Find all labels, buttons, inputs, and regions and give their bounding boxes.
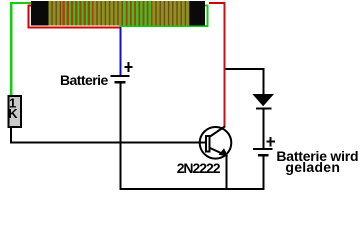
battery B1 short plate (-) (115, 81, 126, 83)
svg-text:K: K (8, 106, 18, 121)
resistor R1 value label K (8, 106, 18, 121)
wire: vertical into diode D1 (262, 68, 264, 94)
inductor L1 winding band olive 2 (94, 1, 124, 25)
inductor L1 right black end cap (189, 1, 205, 25)
battery B2 long plate (+) (253, 148, 273, 150)
label 2N2222 (177, 160, 221, 176)
wire: battery B2 minus to bottom rail (262, 157, 264, 190)
battery B2 short plate (-) (258, 154, 269, 157)
diode D1 triangle (252, 94, 274, 106)
resistor R1 value label 1 (9, 96, 16, 111)
diode D1 cathode bar (256, 107, 271, 109)
resistor R1 body 1K (9, 96, 22, 127)
transistor Q1 collector diagonal (210, 126, 225, 136)
wire: collector node horizontal branch to diode D1 (226, 68, 264, 70)
wire: base wire horizontal to transistor Q1 (10, 142, 205, 144)
inductor L1 left black end cap (31, 1, 49, 25)
wire: battery B1 minus down to bottom rail (120, 83, 122, 190)
svg-text:2N2222: 2N2222 (177, 160, 221, 176)
battery B1 plus sign (124, 62, 132, 72)
wire: resistor R1 to base wire (10, 128, 12, 143)
wire: red winding stub top-left (28, 5, 32, 7)
wire: blue center tap to battery plus (120, 27, 122, 76)
battery B1 long plate (+) (111, 75, 130, 77)
label geladen (285, 159, 340, 175)
label Batterie wird (276, 148, 358, 164)
inductor L1 winding band olive 1 (49, 1, 63, 25)
wire: green winding lead top-left horizontal (10, 2, 31, 4)
wire: red winding left vertical (28, 5, 30, 29)
wire: green vertical from coil to resistor R1 (10, 2, 13, 96)
wire: bottom rail (120, 188, 265, 190)
transistor Q1 circle (200, 127, 232, 159)
transistor Q1 base bar (206, 136, 209, 152)
inductor L1 winding band bright 2 (124, 1, 153, 25)
battery B2 plus sign (267, 137, 275, 146)
svg-text:geladen: geladen (285, 159, 340, 175)
wire: green winding top stub right (205, 5, 209, 7)
wire: red vertical to transistor collector (224, 2, 226, 128)
wire: red winding bottom horizontal to center tap (28, 27, 120, 29)
wire: green winding bottom horizontal to center tap (120, 25, 209, 27)
wire: emitter to bottom rail (225, 154, 227, 189)
transistor Q1 emitter diagonal with arrow (210, 148, 228, 156)
wire: diode D1 to battery B2 (262, 110, 264, 149)
label Batterie (60, 72, 108, 88)
inductor L1 winding band olive 3 (153, 1, 190, 25)
inductor L1 winding band bright 1 (63, 1, 94, 25)
svg-text:Batterie: Batterie (60, 72, 108, 88)
wire: red winding top-right horizontal (209, 2, 226, 4)
wire: green winding right vertical (207, 5, 209, 28)
